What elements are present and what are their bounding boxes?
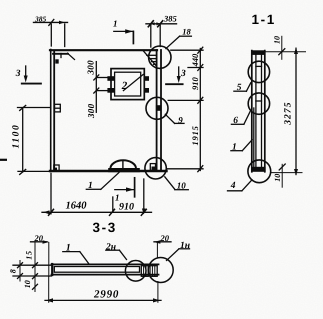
- top-left corner gusset: [53, 53, 75, 63]
- svg-text:1н: 1н: [180, 241, 190, 251]
- 1-1 bottom extension and mini dim 10: [271, 164, 303, 187]
- leader 18: [166, 36, 192, 48]
- dimension 385 top-left: [34, 19, 68, 46]
- svg-text:1640: 1640: [66, 201, 88, 212]
- stray scan mark left edge: [0, 159, 7, 161]
- svg-text:10: 10: [177, 180, 187, 190]
- section 1-1 bar outline: [251, 50, 266, 172]
- bottom-left corner block: [54, 165, 59, 171]
- svg-text:1915: 1915: [190, 125, 200, 145]
- panel bottom edge: [50, 170, 167, 172]
- dimension 385 top-right: [146, 21, 177, 47]
- callout circle 2n: [125, 261, 146, 282]
- svg-text:2н: 2н: [105, 242, 116, 252]
- label 2n: [106, 250, 127, 259]
- end plate block a: [141, 266, 148, 277]
- right post bar right line: [160, 50, 162, 171]
- svg-text:5: 5: [237, 83, 242, 93]
- section mark 3 left: [22, 66, 41, 84]
- svg-text:3-3: 3-3: [93, 220, 117, 235]
- dim 20 right of 3-3: [154, 240, 171, 257]
- svg-text:1100: 1100: [12, 124, 22, 149]
- callout circle 18: [149, 46, 171, 68]
- end plate block b: [150, 266, 157, 277]
- 1-1 top extension and mini dim 10: [266, 36, 306, 59]
- callout circle 6: [248, 93, 269, 114]
- label 1n: [167, 249, 190, 261]
- svg-text:3: 3: [180, 69, 186, 79]
- label 6: [231, 112, 250, 125]
- svg-text:1-1: 1-1: [252, 12, 276, 27]
- callout circle 1n: [148, 258, 173, 283]
- label 4: [228, 180, 253, 191]
- corner block in circle 10: [150, 164, 155, 171]
- lifting loop hump on bottom edge: [108, 160, 140, 172]
- label 1 section bar: [231, 140, 252, 151]
- right post bar left line: [156, 50, 158, 171]
- svg-text:8: 8: [8, 269, 17, 273]
- svg-text:1: 1: [66, 242, 71, 253]
- svg-text:910: 910: [119, 202, 134, 213]
- svg-text:18: 18: [182, 26, 191, 36]
- panel left edge inner line: [53, 51, 55, 171]
- dimension 300/300 for plate: [94, 62, 108, 113]
- panel top edge: [50, 49, 157, 51]
- svg-text:910: 910: [190, 77, 200, 91]
- svg-text:1: 1: [232, 143, 237, 153]
- svg-text:6: 6: [233, 116, 238, 126]
- callout circle 9: [146, 97, 168, 119]
- mid-left connector tab: [55, 104, 61, 112]
- section mark 1 top: [114, 29, 134, 43]
- central embed plate detail 2: [107, 69, 149, 100]
- svg-text:20: 20: [160, 233, 170, 243]
- svg-text:4: 4: [230, 181, 236, 191]
- section mark 3 right: [166, 67, 183, 84]
- dim 20 left of 3-3: [31, 240, 50, 276]
- dimension 2990: [45, 277, 161, 303]
- dimension 1100 left: [18, 105, 51, 174]
- svg-text:440: 440: [190, 53, 200, 68]
- svg-text:10: 10: [23, 280, 32, 288]
- svg-text:300: 300: [86, 103, 96, 119]
- svg-text:385: 385: [34, 14, 47, 23]
- svg-text:2: 2: [121, 80, 128, 92]
- callout circle 4: [248, 160, 271, 183]
- svg-text:3275: 3275: [284, 101, 294, 125]
- callout circle 10: [145, 158, 166, 179]
- label 1 main view leader to hump: [86, 173, 119, 190]
- right dimension chain 440 910 1915: [167, 47, 204, 172]
- svg-text:3: 3: [15, 69, 21, 79]
- svg-text:15: 15: [24, 250, 33, 260]
- 3-3 left small dims 15 8 10: [13, 242, 52, 292]
- svg-text:385: 385: [163, 14, 178, 24]
- svg-text:300: 300: [85, 60, 95, 76]
- bottom dimension line 1640 + 910: [42, 174, 152, 216]
- section 3-3 bar: [52, 264, 159, 275]
- section mark 1 bottom: [115, 178, 135, 197]
- svg-text:9: 9: [178, 115, 183, 125]
- leader 9: [165, 114, 184, 123]
- label 5: [234, 83, 251, 91]
- svg-text:1: 1: [88, 181, 93, 191]
- connector plate in circle 9: [156, 105, 161, 111]
- svg-text:1: 1: [113, 19, 118, 29]
- callout circle 5: [248, 61, 269, 82]
- 1-1 dimension 3275: [294, 48, 298, 176]
- label 1 of 3-3: [63, 252, 89, 264]
- svg-text:10: 10: [273, 174, 282, 182]
- svg-text:2990: 2990: [93, 288, 119, 300]
- panel left edge outer line: [50, 50, 52, 172]
- leader 10: [165, 177, 189, 190]
- svg-text:10: 10: [272, 36, 281, 44]
- weld gusset hatch in circle 18: [144, 51, 157, 65]
